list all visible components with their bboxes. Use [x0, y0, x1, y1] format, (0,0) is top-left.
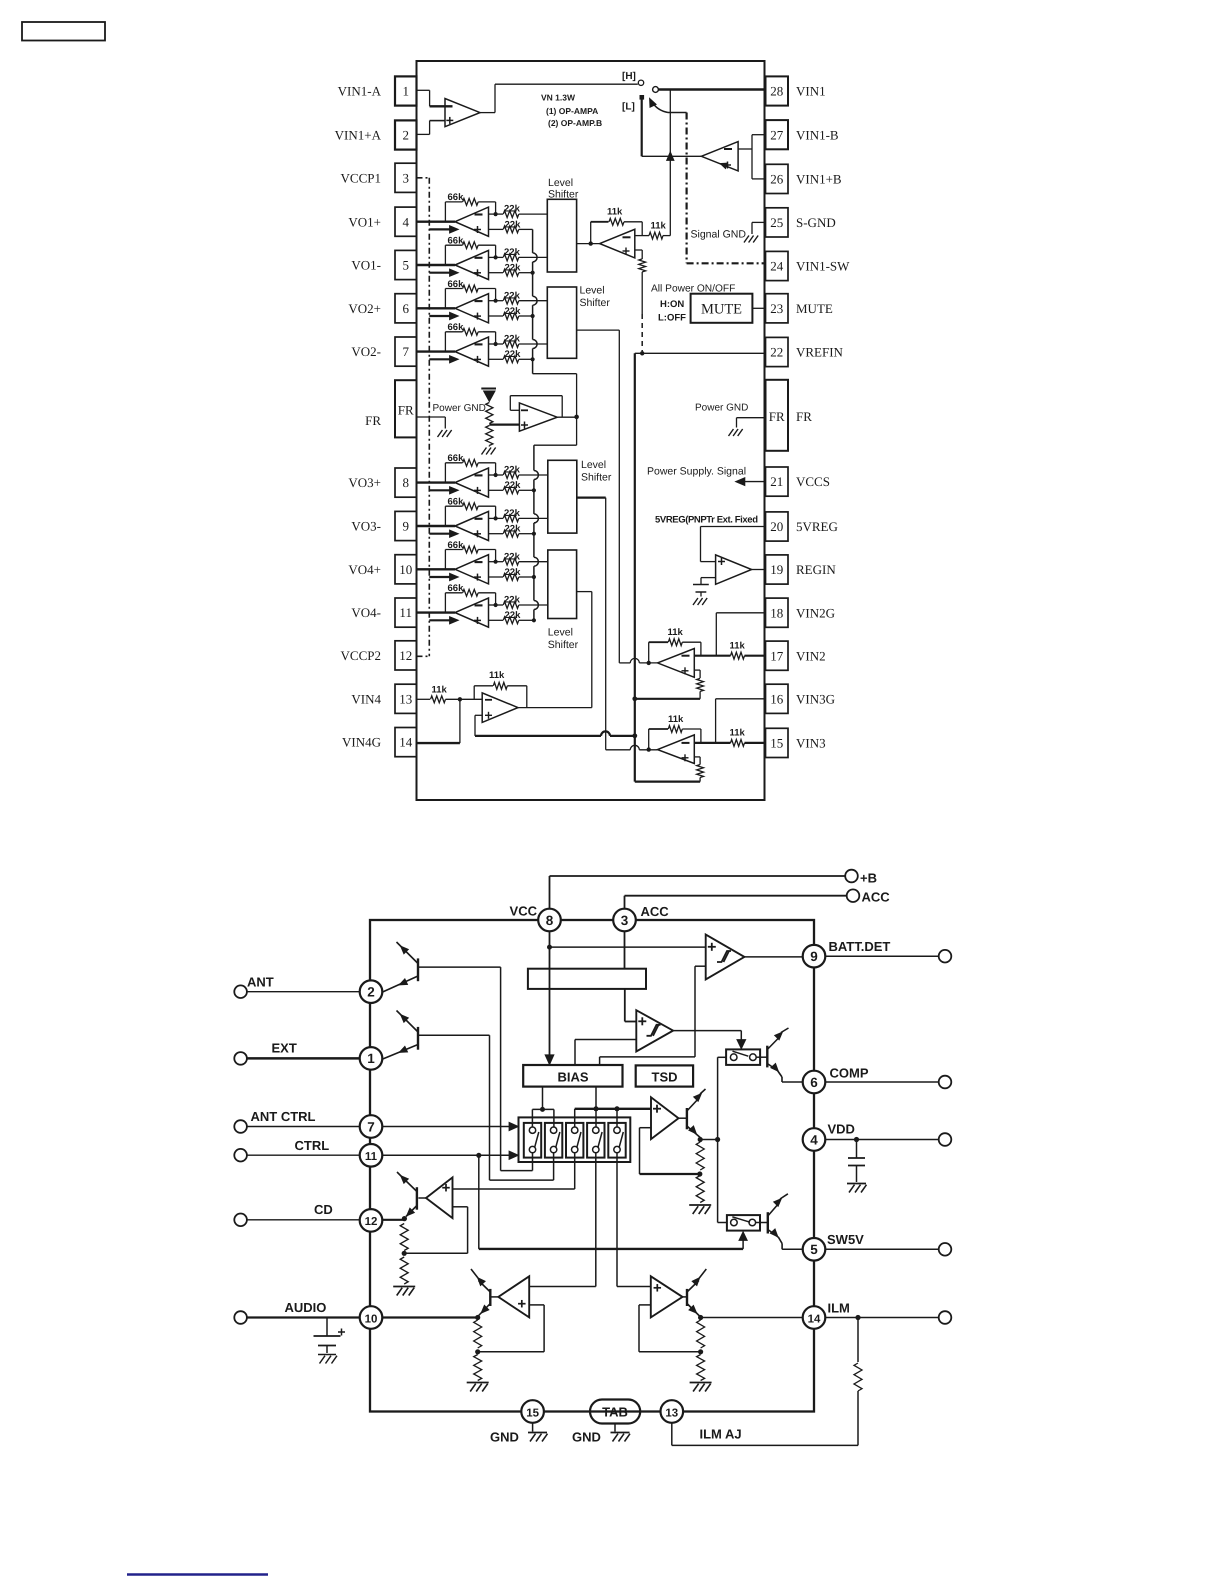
- wire Q1 to switch sw2: [489, 1035, 491, 1180]
- wire sw3 to CD amp + input: [574, 1153, 576, 1189]
- 66k feedback resistor VO1+: [444, 202, 446, 222]
- pin 25 box: [766, 208, 789, 237]
- ILM line from amp to pin 14: [701, 1317, 803, 1319]
- svg-text:Shifter: Shifter: [580, 297, 611, 309]
- op-amp VO3- + input arrow from VCC/2 bus: [429, 533, 451, 535]
- pin 13 circle: [661, 1400, 684, 1423]
- svg-text:Power Supply. Signal: Power Supply. Signal: [647, 466, 746, 478]
- terminal VDD: [939, 1133, 952, 1146]
- op-amp VO4+ triangle: [455, 555, 489, 584]
- 22k resistor (inverting path) VO3+: [489, 474, 504, 476]
- terminal EXT: [234, 1052, 247, 1065]
- svg-text:VIN1-A: VIN1-A: [338, 84, 382, 99]
- wire pin 14 (VIN4G) to VIN4 node: [417, 742, 460, 744]
- svg-text:22k: 22k: [505, 480, 522, 491]
- mini switch sw3: [566, 1123, 583, 1158]
- svg-text:20: 20: [770, 519, 783, 534]
- svg-text:FR: FR: [769, 409, 785, 424]
- page corner box: [22, 22, 105, 41]
- svg-text:CD: CD: [314, 1202, 333, 1217]
- svg-text:VN 1.3W: VN 1.3W: [541, 93, 576, 103]
- svg-text:VO1+: VO1+: [348, 214, 381, 229]
- svg-text:+B: +B: [860, 871, 877, 886]
- COMP/SW5V switch control vertical: [717, 1057, 719, 1222]
- pin 27 box: [766, 120, 789, 149]
- VDD decoupling capacitor: [854, 1137, 859, 1142]
- svg-text:66k: 66k: [448, 322, 465, 333]
- pin 1 circle: [360, 1047, 383, 1070]
- terminal SW5V: [939, 1243, 952, 1256]
- svg-text:12: 12: [365, 1216, 378, 1228]
- 22k resistor (inverting path) VO4+: [489, 561, 504, 563]
- pin 3 circle: [613, 909, 636, 932]
- op-amp B input wires to pins 27/26: [738, 148, 752, 150]
- svg-text:VIN3G: VIN3G: [796, 691, 835, 706]
- svg-text:VCC: VCC: [510, 904, 538, 919]
- pin 12 box: [395, 641, 417, 670]
- svg-text:8: 8: [402, 475, 409, 490]
- VIN2 11k feedback: [647, 661, 651, 665]
- svg-text:TSD: TSD: [652, 1070, 678, 1085]
- op-amp VO3+ + input arrow from VCC/2 bus: [429, 489, 451, 491]
- mid amplifier (switch output driver): [651, 1097, 679, 1139]
- VIN2 + input resistor to power block edge: [694, 669, 700, 671]
- terminal ILM: [939, 1311, 952, 1324]
- svg-text:VIN4G: VIN4G: [342, 735, 381, 750]
- svg-text:66k: 66k: [448, 583, 465, 594]
- VREF bus jog right around buffer: [533, 373, 577, 375]
- mini switch sw4: [587, 1123, 604, 1158]
- pin 15 circle: [521, 1400, 544, 1423]
- svg-text:19: 19: [770, 562, 783, 577]
- wire VO1+ + line to bus: [519, 228, 533, 230]
- wire VO1- - line into level shifter: [519, 256, 548, 258]
- diode D1: [481, 388, 496, 390]
- svg-text:VO1-: VO1-: [351, 258, 381, 273]
- svg-text:3: 3: [402, 170, 409, 185]
- svg-text:22k: 22k: [505, 349, 522, 360]
- VIN4 op-amp (pin 13 input): [417, 698, 431, 700]
- svg-text:66k: 66k: [448, 192, 465, 203]
- svg-text:5VREG: 5VREG: [796, 519, 838, 534]
- pin 12 circle: [360, 1209, 383, 1232]
- svg-text:7: 7: [367, 1119, 375, 1134]
- op-amp group VO2+ output line: [417, 307, 456, 309]
- svg-text:11: 11: [365, 1151, 378, 1163]
- pin 4 circle: [803, 1128, 826, 1151]
- svg-text:18: 18: [770, 605, 783, 620]
- svg-text:VCCP1: VCCP1: [341, 170, 381, 185]
- pin 3 box: [395, 163, 417, 192]
- svg-text:VIN2G: VIN2G: [796, 605, 835, 620]
- 66k feedback resistor VO3+: [444, 463, 446, 483]
- resistor R (upper) below D1: [486, 403, 493, 424]
- svg-text:5: 5: [402, 258, 409, 273]
- svg-text:Power GND: Power GND: [695, 403, 748, 414]
- CTRL branch down and right to SW5V switch: [478, 1155, 480, 1249]
- 22k resistor (inverting path) VO2+: [489, 300, 504, 302]
- wire VO3- - line into level shifter: [519, 517, 548, 519]
- svg-text:66k: 66k: [448, 497, 465, 508]
- op-amp VO2- triangle: [455, 337, 489, 366]
- svg-text:REGIN: REGIN: [796, 562, 836, 577]
- schmitt A output to pin 9: [744, 956, 802, 958]
- svg-text:VIN4: VIN4: [351, 691, 381, 706]
- op-amp VO1- triangle: [455, 250, 489, 279]
- svg-text:25: 25: [770, 215, 783, 230]
- svg-text:16: 16: [770, 691, 784, 706]
- svg-text:Shifter: Shifter: [548, 639, 579, 651]
- regulator block (unlabeled): [528, 969, 646, 989]
- pin 16 box: [766, 684, 789, 713]
- terminal CD: [234, 1214, 247, 1227]
- BIAS to sw4 wire: [595, 1087, 597, 1127]
- svg-text:22k: 22k: [505, 219, 522, 230]
- pin 21 box: [766, 467, 789, 496]
- VIN2 op-amp: [658, 649, 695, 678]
- svg-text:11k: 11k: [730, 728, 746, 739]
- svg-text:GND: GND: [572, 1430, 601, 1445]
- mini switch sw1: [524, 1123, 541, 1158]
- svg-text:24: 24: [770, 259, 784, 274]
- wire VO3+ + line to bus: [519, 489, 534, 491]
- svg-text:VCCP2: VCCP2: [341, 648, 381, 663]
- VREF bus (VCC/2) vertical upper section: [532, 229, 534, 253]
- buffer feedback loop: [509, 396, 511, 411]
- pin 8 circle: [538, 909, 561, 932]
- op-amp group VO3+ output line: [417, 481, 456, 483]
- svg-text:BIAS: BIAS: [557, 1070, 588, 1085]
- svg-text:11k: 11k: [607, 207, 623, 218]
- svg-text:VO4-: VO4-: [351, 605, 381, 620]
- 11k resistor op-amp C inverting input to switch node: [635, 235, 649, 237]
- svg-text:66k: 66k: [448, 540, 465, 551]
- svg-text:28: 28: [770, 84, 783, 99]
- switch SW1 (VIN1 source select) [H] contact: [638, 80, 643, 85]
- Level Shifter box 3: [548, 460, 577, 533]
- svg-text:Level: Level: [548, 177, 573, 189]
- transistor Q1 (EXT, pin 1): [417, 1027, 419, 1050]
- svg-text:BATT.DET: BATT.DET: [829, 939, 891, 954]
- op-amp C (level shifter 1 output amp): [577, 243, 600, 245]
- transistor Q4 (mid amp driver): [679, 1117, 687, 1119]
- pin 9 box: [395, 511, 417, 540]
- op-amp group VO1- output line: [417, 264, 456, 266]
- pin 1 box: [395, 76, 417, 105]
- svg-text:11k: 11k: [432, 685, 448, 696]
- BIAS box: [523, 1065, 622, 1087]
- svg-text:22k: 22k: [504, 290, 521, 301]
- terminal COMP: [939, 1076, 952, 1089]
- svg-text:VIN1+A: VIN1+A: [335, 128, 382, 143]
- svg-text:14: 14: [399, 735, 413, 750]
- pin 10 circle: [360, 1306, 383, 1329]
- AUDIO line from pin 10: [382, 1316, 477, 1318]
- level shifter 3 output wire to VIN3 amp: [577, 497, 606, 499]
- BIAS to sw1/sw2 T-bar: [542, 1087, 544, 1110]
- svg-text:23: 23: [770, 301, 783, 316]
- svg-text:MUTE: MUTE: [796, 301, 833, 316]
- op-amp VO2+ triangle: [455, 294, 489, 323]
- svg-text:ACC: ACC: [862, 890, 891, 905]
- svg-text:GND: GND: [490, 1430, 519, 1445]
- VIN3 11k feedback: [647, 747, 651, 751]
- VREF bus vertical lower section: [533, 445, 535, 470]
- 22k resistor (non-inverting path) VO3+: [489, 489, 504, 491]
- 66k feedback resistor VO2-: [444, 332, 446, 352]
- transistor Q3 (CD, pin 12): [416, 1187, 418, 1210]
- VCCP dash-dot bus from pin 3 to pin 12: [417, 177, 430, 179]
- ACC supply wire: [624, 896, 626, 909]
- 22k resistor (inverting path) VO1+: [489, 213, 504, 215]
- AUDIO amp feedback loop: [529, 1304, 544, 1306]
- wire VO4+ - line into level shifter: [519, 561, 548, 563]
- 22k resistor (inverting path) VO2-: [489, 343, 504, 345]
- CD amp output feedback loop: [453, 1206, 468, 1208]
- svg-text:2: 2: [367, 985, 375, 1000]
- Q4 emitter resistor chain to ground: [696, 1142, 704, 1170]
- svg-text:VIN1: VIN1: [796, 84, 826, 99]
- pin 17 box: [766, 641, 789, 670]
- pin FR (right) box: [766, 380, 789, 451]
- IC body outline U1: [417, 61, 765, 800]
- svg-text:11k: 11k: [668, 714, 684, 725]
- svg-text:ANT CTRL: ANT CTRL: [251, 1109, 316, 1124]
- svg-text:Signal GND: Signal GND: [691, 229, 747, 241]
- wire: op-amp A output to switch [H]: [480, 112, 495, 114]
- svg-text:FR: FR: [796, 409, 812, 424]
- terminal ANT: [234, 985, 247, 998]
- pin 8 box: [395, 468, 417, 497]
- VIN4 11k feedback: [473, 686, 475, 700]
- svg-text:27: 27: [770, 127, 784, 142]
- svg-text:66k: 66k: [448, 279, 465, 290]
- pin 5 circle: [803, 1238, 826, 1261]
- pin 11 circle: [360, 1144, 383, 1167]
- op-amp group VO4- output line: [417, 611, 456, 613]
- Q4 emitter node wires: [698, 1137, 703, 1142]
- svg-text:5VREG(PNPTr Ext. Fixed: 5VREG(PNPTr Ext. Fixed: [655, 515, 758, 526]
- transistor Q8 (ILM): [683, 1296, 688, 1298]
- wire pin8 node to schmitt trigger A + input: [550, 946, 706, 948]
- VREFIN line from pin 22: [635, 352, 766, 354]
- ILM AJ resistor path: [855, 1315, 860, 1320]
- pin 7 circle: [360, 1115, 383, 1138]
- VIN3 op-amp: [658, 735, 695, 764]
- 22k resistor (non-inverting path) VO2+: [489, 315, 504, 317]
- GND stub below pin 15: [532, 1423, 534, 1432]
- 66k feedback resistor VO2+: [444, 289, 446, 309]
- 22k resistor (inverting path) VO1-: [489, 256, 504, 258]
- svg-text:22k: 22k: [505, 610, 522, 621]
- svg-text:10: 10: [365, 1313, 378, 1325]
- svg-text:ILM AJ: ILM AJ: [700, 1427, 742, 1442]
- svg-text:VDD: VDD: [828, 1122, 855, 1137]
- pin 28 box: [766, 76, 789, 105]
- op-amp VO4- triangle: [455, 598, 489, 627]
- schmitt B lower input from BIAS: [575, 1039, 636, 1041]
- wire Q6 to pin 5 SW5V: [782, 1248, 802, 1250]
- Level Shifter box 2: [547, 287, 576, 358]
- resistor chain below CD node: [400, 1224, 408, 1251]
- schmitt trigger B: [636, 1010, 673, 1051]
- svg-text:22k: 22k: [504, 551, 521, 562]
- pin 23 box: [766, 294, 789, 323]
- svg-text:22k: 22k: [504, 465, 521, 476]
- svg-text:22: 22: [770, 345, 783, 360]
- 66k feedback resistor VO3-: [444, 506, 446, 526]
- VIN3 inverting line with 11k to pin 15: [694, 742, 730, 744]
- bus to mid amp + input (from sw3/sw4/sw5 tops): [575, 1108, 651, 1110]
- pin 5 box: [395, 250, 417, 279]
- svg-text:22k: 22k: [505, 263, 522, 274]
- mini switch sw2: [545, 1123, 562, 1158]
- TAB pad: [590, 1400, 640, 1424]
- wire VO2+ - line into level shifter: [519, 300, 548, 302]
- VCC feed from pin 8 to BIAS: [549, 931, 551, 1064]
- svg-text:66k: 66k: [448, 453, 465, 464]
- wire pin 16 (VIN3G) down to VIN3 input: [716, 698, 766, 700]
- svg-text:FR: FR: [365, 413, 381, 428]
- transistor Q6 (SW5V driver): [756, 1222, 768, 1224]
- ILM amplifier group: [651, 1276, 683, 1317]
- svg-text:7: 7: [402, 344, 409, 359]
- svg-text:17: 17: [770, 648, 784, 663]
- 22k resistor (non-inverting path) VO3-: [489, 533, 504, 535]
- switch SW1 [L] contact: [640, 95, 645, 100]
- CD amp triangle: [418, 1197, 426, 1199]
- pin 26 box: [766, 164, 789, 193]
- svg-text:10: 10: [399, 562, 412, 577]
- op-amp B output wire to switch [L]: [642, 155, 702, 157]
- pin 15 box: [766, 728, 789, 757]
- svg-text:[L]: [L]: [622, 102, 635, 113]
- svg-text:11k: 11k: [489, 670, 505, 681]
- svg-text:26: 26: [770, 172, 784, 187]
- pin 2 circle: [360, 980, 383, 1003]
- buffer output to VREF bus: [557, 416, 576, 418]
- wire Q2 to switch sw1: [500, 967, 502, 1171]
- svg-text:VIN1-SW: VIN1-SW: [796, 259, 850, 274]
- svg-text:22k: 22k: [505, 524, 522, 535]
- pin 7 box: [395, 337, 417, 366]
- svg-text:Power GND: Power GND: [433, 403, 486, 414]
- svg-text:Level: Level: [548, 627, 573, 639]
- schmitt A lower input from BIAS: [695, 965, 706, 967]
- wire VO4+ + line to bus: [519, 576, 534, 578]
- pin 11 box: [395, 598, 417, 627]
- svg-text:11k: 11k: [668, 627, 684, 638]
- svg-text:13: 13: [665, 1407, 678, 1419]
- pin 24 box: [766, 251, 789, 280]
- pin 18 box: [766, 598, 789, 627]
- svg-text:1: 1: [402, 84, 409, 99]
- +B supply wire: [549, 876, 551, 909]
- svg-text:MUTE: MUTE: [701, 302, 742, 318]
- power block left boundary: [634, 353, 636, 781]
- ILM amp feedback loop: [639, 1304, 651, 1306]
- svg-text:14: 14: [808, 1313, 821, 1325]
- op-amp VO2+ + input arrow from VCC/2 bus: [429, 315, 451, 317]
- regulator op-amp - input capacitor to ground: [701, 577, 716, 579]
- wire VO2- + line to bus: [519, 358, 533, 360]
- transistor Q5 (COMP driver): [756, 1056, 767, 1058]
- terminal ANT CTRL: [234, 1120, 247, 1133]
- svg-text:H:ON: H:ON: [660, 299, 684, 310]
- op-amp VO3+ triangle: [455, 468, 489, 497]
- svg-text:11k: 11k: [651, 221, 667, 232]
- wire VO4- + line to bus: [519, 619, 534, 621]
- op-amp VO1+ triangle: [455, 207, 489, 236]
- svg-text:22k: 22k: [505, 567, 522, 578]
- svg-text:VO4+: VO4+: [348, 562, 381, 577]
- 22k resistor (non-inverting path) VO1-: [489, 272, 504, 274]
- op-amp VO2- + input arrow from VCC/2 bus: [429, 358, 451, 360]
- op-amp A (VIN1-A/VIN1+A input amp): [417, 89, 430, 91]
- Level Shifter box 1: [547, 199, 576, 272]
- wire sw4 down to AUDIO amp: [595, 1153, 597, 1287]
- svg-text:TAB: TAB: [602, 1404, 628, 1419]
- svg-text:4: 4: [402, 214, 409, 229]
- wire sw5 down to ILM amp: [616, 1153, 618, 1287]
- mini switch sw5: [608, 1123, 625, 1158]
- Level Shifter box 4: [548, 550, 577, 619]
- svg-text:VIN2: VIN2: [796, 648, 826, 663]
- ACC feed through regulator block: [624, 931, 626, 968]
- wire Q5 to pin 6 COMP: [782, 1081, 803, 1083]
- VIN4 + input wire to power block edge: [475, 714, 482, 716]
- CTRL arrow into switch block: [382, 1154, 510, 1156]
- IC boundary rectangle: [370, 920, 814, 1412]
- GND stub below TAB: [614, 1424, 616, 1432]
- FR (left) ground wire and Power GND: [417, 416, 446, 418]
- AUDIO amplifier group: [498, 1276, 529, 1317]
- 66k feedback resistor VO1-: [444, 245, 446, 265]
- svg-text:6: 6: [402, 301, 409, 316]
- svg-text:VO3+: VO3+: [348, 475, 381, 490]
- svg-text:22k: 22k: [504, 204, 521, 215]
- 22k resistor (inverting path) VO3-: [489, 517, 504, 519]
- svg-text:3: 3: [621, 913, 629, 928]
- svg-text:15: 15: [770, 736, 783, 751]
- pin 22 box: [766, 337, 789, 366]
- 22k resistor (non-inverting path) VO4+: [489, 576, 504, 578]
- svg-text:AUDIO: AUDIO: [285, 1300, 327, 1315]
- footer blue rule: [127, 1573, 268, 1576]
- wire MUTE box to pin 23: [752, 307, 765, 309]
- op-amp group VO4+ output line: [417, 568, 456, 570]
- pin 20 box: [766, 512, 789, 541]
- wire VO2- - line into level shifter: [519, 343, 548, 345]
- mid amp lower input feedback: [640, 1127, 652, 1129]
- ground below resistor chain: [482, 448, 487, 455]
- wire VO4- - line into level shifter: [519, 604, 548, 606]
- svg-text:ACC: ACC: [641, 904, 670, 919]
- pin 13 box: [395, 684, 417, 713]
- wire VO3+ - line into level shifter: [519, 474, 548, 476]
- level shifter 2 output wire to VIN2 amp: [577, 329, 620, 331]
- svg-text:5: 5: [810, 1242, 818, 1257]
- terminal CTRL: [234, 1149, 247, 1162]
- 22k resistor (non-inverting path) VO4-: [489, 619, 504, 621]
- pin 9 circle: [803, 945, 826, 968]
- op-amp VO4+ + input arrow from VCC/2 bus: [429, 576, 451, 578]
- svg-text:22k: 22k: [505, 306, 522, 317]
- svg-text:VO3-: VO3-: [351, 519, 381, 534]
- svg-text:(1) OP-AMPA: (1) OP-AMPA: [546, 106, 598, 116]
- svg-text:Shifter: Shifter: [581, 472, 612, 484]
- svg-text:EXT: EXT: [272, 1041, 297, 1056]
